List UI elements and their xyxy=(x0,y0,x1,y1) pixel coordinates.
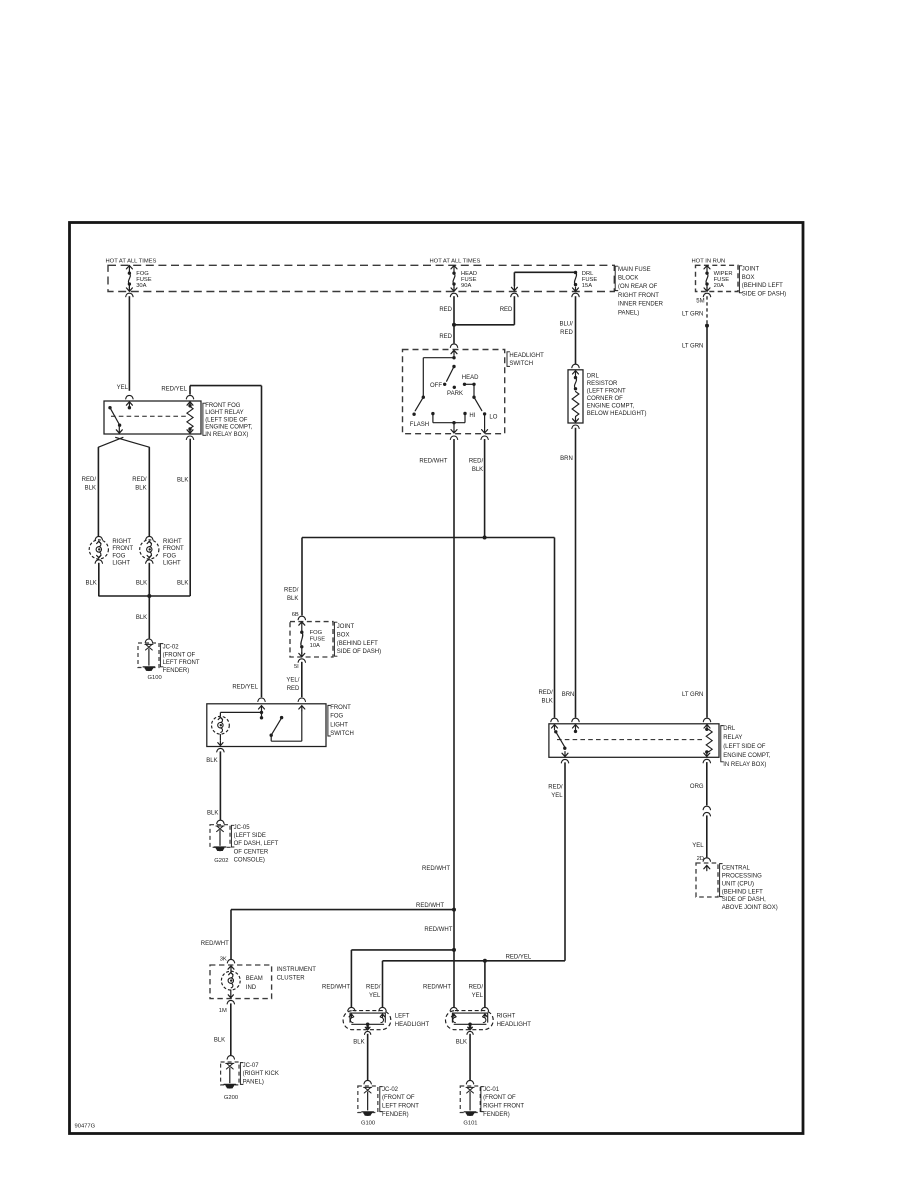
svg-text:RED/WHT: RED/WHT xyxy=(201,941,229,947)
wire RED/YEL relay coil feed xyxy=(161,386,265,711)
wire BLK right headlight ground xyxy=(456,1034,474,1084)
ground bus wire xyxy=(98,594,190,598)
svg-text:BRN: BRN xyxy=(560,456,573,462)
svg-text:(LEFT SIDE: (LEFT SIDE xyxy=(234,833,266,839)
svg-text:LEFT FRONT: LEFT FRONT xyxy=(163,660,200,666)
svg-text:BLK: BLK xyxy=(287,596,298,602)
front fog light switch box xyxy=(207,704,326,747)
svg-text:LIGHT: LIGHT xyxy=(112,561,130,567)
JC-07 splice symbol xyxy=(226,1063,234,1083)
svg-text:ENGINE COMPT,: ENGINE COMPT, xyxy=(587,404,635,410)
svg-text:BRN: BRN xyxy=(562,692,575,698)
svg-text:ORG: ORG xyxy=(690,784,704,790)
svg-text:FRONT FOG: FRONT FOG xyxy=(205,403,241,409)
svg-text:HOT IN RUN: HOT IN RUN xyxy=(692,258,726,264)
svg-text:PARK: PARK xyxy=(447,391,463,397)
svg-text:BLK: BLK xyxy=(206,758,217,764)
svg-text:BLK: BLK xyxy=(136,615,147,621)
connector JC-05 dashed box xyxy=(210,825,230,848)
svg-text:RED/: RED/ xyxy=(132,477,147,483)
svg-text:HOT AT ALL TIMES: HOT AT ALL TIMES xyxy=(106,258,157,264)
JC-05 splice symbol xyxy=(216,826,224,846)
svg-text:G202: G202 xyxy=(214,858,228,864)
right front fog light lamp 2 xyxy=(140,540,159,559)
svg-text:RED/: RED/ xyxy=(548,785,563,791)
svg-text:BLK: BLK xyxy=(472,467,483,473)
svg-text:JC-01: JC-01 xyxy=(483,1087,500,1093)
label LO xyxy=(489,415,497,421)
svg-text:IN RELAY BOX): IN RELAY BOX) xyxy=(723,762,766,768)
svg-text:INNER FENDER: INNER FENDER xyxy=(618,302,664,308)
svg-text:JC-05: JC-05 xyxy=(234,825,251,831)
label RIGHT FRONT FOG LIGHT 2 xyxy=(163,539,184,567)
label JC-05 (LEFT SIDE OF DASH...) xyxy=(231,825,278,864)
switch feed node xyxy=(423,356,455,397)
fog switch L link xyxy=(271,710,302,741)
contact HI xyxy=(463,412,475,419)
svg-text:BLK: BLK xyxy=(177,477,188,483)
label INSTRUMENT CLUSTER xyxy=(277,967,317,982)
svg-text:CLUSTER: CLUSTER xyxy=(277,976,306,982)
fog relay internal switch xyxy=(108,406,131,433)
DRL resistor R1 box xyxy=(568,370,583,423)
fuse HEAD FUSE 90A xyxy=(451,266,477,292)
svg-text:RED: RED xyxy=(439,307,452,313)
DRL relay BRN node xyxy=(574,730,577,733)
svg-text:5M: 5M xyxy=(696,298,704,304)
fog relay coil xyxy=(187,404,193,431)
switch lever LO xyxy=(472,384,486,415)
svg-text:YEL: YEL xyxy=(692,843,704,849)
svg-text:RED/: RED/ xyxy=(366,985,381,991)
label DRL RELAY xyxy=(721,726,771,769)
label DRL RESISTOR xyxy=(587,374,647,418)
svg-text:FOG: FOG xyxy=(330,714,343,720)
wire 5M joint box output xyxy=(696,293,710,304)
svg-text:HEADLIGHT: HEADLIGHT xyxy=(509,353,544,359)
svg-text:CORNER OF: CORNER OF xyxy=(587,396,623,402)
svg-text:SWITCH: SWITCH xyxy=(509,361,533,367)
svg-text:(BEHIND LEFT: (BEHIND LEFT xyxy=(722,889,763,895)
svg-text:LT GRN: LT GRN xyxy=(682,312,703,318)
label JOINT BOX (BEHIND LEFT SIDE OF DASH) fog xyxy=(334,622,381,656)
svg-text:RED/WHT: RED/WHT xyxy=(424,927,452,933)
svg-text:RED/: RED/ xyxy=(469,985,484,991)
svg-text:BLOCK: BLOCK xyxy=(618,276,638,282)
switch LO output xyxy=(482,414,488,433)
svg-text:LO: LO xyxy=(489,415,497,421)
wire RED/YEL to left headlight xyxy=(366,961,386,1011)
switch lever OFF xyxy=(443,365,456,386)
svg-text:SWITCH: SWITCH xyxy=(330,731,354,737)
svg-text:BLU/: BLU/ xyxy=(559,321,573,327)
svg-text:FOG: FOG xyxy=(163,553,176,559)
svg-text:RED/WHT: RED/WHT xyxy=(423,985,451,991)
svg-text:(BEHIND LEFT: (BEHIND LEFT xyxy=(742,283,783,289)
svg-text:5I: 5I xyxy=(294,664,299,670)
svg-text:FUSE: FUSE xyxy=(310,637,326,643)
ground G100 (fog) xyxy=(143,667,162,681)
svg-text:SIDE OF DASH): SIDE OF DASH) xyxy=(742,292,786,298)
svg-text:BLK: BLK xyxy=(207,811,218,817)
wire ORG relay coil to connector xyxy=(690,751,711,805)
right front fog light lamp 1 xyxy=(89,540,108,559)
label FRONT FOG LIGHT RELAY xyxy=(203,403,253,438)
label OFF xyxy=(430,383,442,389)
wire RED/BLK LO branch xyxy=(469,436,488,540)
ground G100 (left headlight) xyxy=(361,1112,375,1127)
svg-text:JC-02: JC-02 xyxy=(163,644,180,650)
svg-text:G100: G100 xyxy=(148,675,162,681)
svg-text:PANEL): PANEL) xyxy=(618,310,639,316)
svg-text:RED: RED xyxy=(500,307,513,313)
front fog light relay U1 box xyxy=(104,401,201,434)
wire YEL/RED joint box to fog switch xyxy=(286,659,305,711)
DRL relay internal switch xyxy=(554,730,568,757)
svg-text:10A: 10A xyxy=(310,643,320,649)
svg-text:RIGHT FRONT: RIGHT FRONT xyxy=(483,1104,524,1110)
contact HEAD xyxy=(462,375,479,386)
fog switch lamp output xyxy=(217,734,224,752)
svg-text:LEFT: LEFT xyxy=(395,1014,410,1020)
wire RED/YEL to right headlight xyxy=(469,961,489,1011)
label HEADLIGHT SWITCH xyxy=(507,352,544,367)
svg-text:ENGINE COMPT,: ENGINE COMPT, xyxy=(723,753,771,759)
svg-text:(FRONT OF: (FRONT OF xyxy=(382,1095,415,1101)
wire RED/YEL horizontal run xyxy=(383,955,566,961)
svg-text:BLK: BLK xyxy=(85,580,96,586)
wire RED/WHT to left headlight xyxy=(322,950,454,1011)
svg-text:15A: 15A xyxy=(582,283,592,289)
svg-text:FOG: FOG xyxy=(310,630,323,636)
figure number 90477G xyxy=(75,1124,96,1130)
connector JC-02 (left headlight) dashed box xyxy=(358,1086,378,1113)
connector JC-02 (fog) dashed box xyxy=(138,643,159,668)
svg-text:BLK: BLK xyxy=(135,486,146,492)
label JC-07 (RIGHT KICK PANEL) xyxy=(240,1063,278,1086)
JC-02 hl splice symbol xyxy=(364,1087,372,1110)
node RED/WHT beam branch xyxy=(452,908,456,912)
svg-text:30A: 30A xyxy=(136,283,146,289)
svg-text:(BEHIND LEFT: (BEHIND LEFT xyxy=(337,641,378,647)
node RED junction xyxy=(452,323,456,327)
svg-text:G200: G200 xyxy=(224,1095,238,1101)
svg-text:RED/WHT: RED/WHT xyxy=(419,458,447,464)
wire RED/YEL DRL relay output xyxy=(548,759,568,960)
svg-text:DRL: DRL xyxy=(587,374,600,380)
svg-text:OF CENTER: OF CENTER xyxy=(234,849,269,855)
wire BLK lamp1 ground drop xyxy=(85,560,102,596)
svg-text:MAIN FUSE: MAIN FUSE xyxy=(618,267,651,273)
svg-text:SIDE OF DASH,: SIDE OF DASH, xyxy=(722,897,766,903)
svg-text:BOX: BOX xyxy=(337,633,350,639)
wire DRL fuse feed (inside fuse block) xyxy=(511,272,575,290)
svg-text:6B: 6B xyxy=(292,612,299,618)
svg-text:IN RELAY BOX): IN RELAY BOX) xyxy=(205,432,248,438)
svg-text:FENDER): FENDER) xyxy=(483,1112,510,1118)
svg-text:RIGHT: RIGHT xyxy=(163,539,182,545)
ground G202 xyxy=(214,847,228,864)
svg-text:JC-07: JC-07 xyxy=(243,1063,260,1069)
svg-text:BLK: BLK xyxy=(456,1040,467,1046)
label FLASH xyxy=(410,422,429,428)
svg-text:RED: RED xyxy=(560,330,573,336)
svg-text:(LEFT SIDE OF: (LEFT SIDE OF xyxy=(205,417,248,423)
inline connector on ORG/YEL wire xyxy=(703,806,710,816)
svg-text:RED/WHT: RED/WHT xyxy=(322,985,350,991)
ground G101 xyxy=(463,1112,477,1127)
label BLK coil wire lower xyxy=(177,580,188,586)
svg-text:HEAD: HEAD xyxy=(462,375,479,381)
svg-text:YEL: YEL xyxy=(369,993,381,999)
wire RED/WHT between branches xyxy=(424,910,454,950)
label CENTRAL PROCESSING UNIT (CPU) xyxy=(720,864,778,912)
svg-text:ENGINE COMPT,: ENGINE COMPT, xyxy=(205,425,253,431)
svg-text:PANEL): PANEL) xyxy=(243,1079,264,1085)
node LT GRN splice xyxy=(705,324,709,328)
wire BLU/RED drl fuse to resistor xyxy=(559,293,579,376)
svg-text:ABOVE JOINT BOX): ABOVE JOINT BOX) xyxy=(722,905,778,911)
svg-text:LIGHT RELAY: LIGHT RELAY xyxy=(205,410,243,416)
svg-text:G101: G101 xyxy=(463,1120,477,1126)
svg-text:YEL: YEL xyxy=(472,993,484,999)
svg-text:BLK: BLK xyxy=(136,580,147,586)
svg-text:RESISTOR: RESISTOR xyxy=(587,381,618,387)
fuse WIPER FUSE 20A xyxy=(704,266,733,292)
main fuse block dashed box xyxy=(108,265,614,291)
svg-text:RIGHT: RIGHT xyxy=(112,539,131,545)
svg-text:DRL: DRL xyxy=(723,726,736,732)
wire LT GRN to DRL relay xyxy=(682,326,711,730)
label JC-01 (FRONT OF RIGHT FRONT FENDER) xyxy=(481,1087,524,1118)
svg-text:JOINT: JOINT xyxy=(742,267,760,273)
connector JC-07 dashed box xyxy=(221,1062,239,1085)
svg-text:YEL/: YEL/ xyxy=(286,677,299,683)
wire YEL fog-fuse to relay xyxy=(117,293,133,407)
svg-text:LEFT FRONT: LEFT FRONT xyxy=(382,1104,419,1110)
svg-text:BLK: BLK xyxy=(353,1040,364,1046)
svg-text:BLK: BLK xyxy=(214,1038,225,1044)
svg-text:YEL: YEL xyxy=(117,385,129,391)
svg-text:RED/: RED/ xyxy=(538,690,553,696)
svg-text:RED: RED xyxy=(287,686,300,692)
svg-text:FENDER): FENDER) xyxy=(163,668,190,674)
svg-text:HEADLIGHT: HEADLIGHT xyxy=(497,1022,532,1028)
svg-text:HOT AT ALL TIMES: HOT AT ALL TIMES xyxy=(430,258,481,264)
svg-text:RED/: RED/ xyxy=(82,477,97,483)
svg-text:FOG: FOG xyxy=(112,553,125,559)
label JOINT BOX (BEHIND LEFT SIDE OF DASH) xyxy=(739,266,786,298)
svg-text:BELOW HEADLIGHT): BELOW HEADLIGHT) xyxy=(587,411,647,417)
wire RED drl-fuse branch xyxy=(454,293,518,325)
svg-text:(LEFT SIDE OF: (LEFT SIDE OF xyxy=(723,744,766,750)
svg-text:90A: 90A xyxy=(461,283,471,289)
JC-02 fog splice symbol xyxy=(145,644,153,665)
svg-text:SIDE OF DASH): SIDE OF DASH) xyxy=(337,649,381,655)
switch output bus xyxy=(431,412,465,433)
svg-text:CONSOLE): CONSOLE) xyxy=(234,858,265,864)
wire RED head fuse to switch xyxy=(439,293,457,325)
svg-text:OF DASH, LEFT: OF DASH, LEFT xyxy=(234,841,279,847)
wire LT GRN dashed segment xyxy=(682,296,707,324)
fog switch feed node xyxy=(220,711,263,720)
beam lamp output xyxy=(227,990,234,1004)
svg-text:RED/YEL: RED/YEL xyxy=(232,685,258,691)
fog switch indicator lamp xyxy=(212,712,230,734)
label HOT AT ALL TIMES (center) xyxy=(430,258,481,264)
svg-text:FRONT: FRONT xyxy=(163,546,184,552)
svg-text:CENTRAL: CENTRAL xyxy=(722,866,751,872)
svg-text:20A: 20A xyxy=(714,283,724,289)
label JC-02 (FRONT OF LEFT FRONT FENDER) hl xyxy=(380,1087,419,1118)
wire BLK cluster to JC-07 xyxy=(214,1003,235,1059)
left headlight lamp xyxy=(343,1011,429,1035)
splice under fog relay xyxy=(98,437,149,447)
ground G200 xyxy=(224,1084,238,1100)
label MAIN FUSE BLOCK xyxy=(615,266,663,316)
wire RED/BLK horizontal bus xyxy=(302,537,555,539)
svg-text:RED: RED xyxy=(439,334,452,340)
wire RED/BLK to right front fog light xyxy=(82,447,103,540)
joint box (fog fuse) dashed box xyxy=(290,622,333,657)
instrument cluster dashed box xyxy=(210,965,272,999)
svg-text:BLK: BLK xyxy=(177,580,188,586)
svg-text:RIGHT FRONT: RIGHT FRONT xyxy=(618,293,659,299)
DRL resistor internals xyxy=(572,376,579,417)
label JC-02 (FRONT OF LEFT FRONT FENDER) xyxy=(160,644,199,675)
JC-01 splice symbol xyxy=(466,1087,474,1110)
svg-text:LT GRN: LT GRN xyxy=(682,344,703,350)
svg-text:RED/WHT: RED/WHT xyxy=(422,866,450,872)
svg-text:G100: G100 xyxy=(361,1120,375,1126)
svg-text:IND: IND xyxy=(246,985,257,991)
wire BLK fog switch to JC-05 xyxy=(206,751,224,823)
svg-text:YEL: YEL xyxy=(551,793,563,799)
contact PARK xyxy=(447,386,463,397)
svg-text:BOX: BOX xyxy=(742,275,755,281)
svg-text:FRONT: FRONT xyxy=(330,705,351,711)
svg-text:LT GRN: LT GRN xyxy=(682,692,703,698)
headlight switch S1 dashed box xyxy=(403,350,505,434)
wire RED/WHT to right headlight xyxy=(423,950,458,1011)
svg-text:RED/YEL: RED/YEL xyxy=(506,955,532,961)
wire BRN resistor to DRL relay xyxy=(560,417,579,730)
node RED/YEL right headlight branch xyxy=(483,959,487,963)
diagram border frame xyxy=(70,223,804,1134)
DRL relay coil xyxy=(705,728,712,754)
svg-text:RED/: RED/ xyxy=(284,587,299,593)
fuse FOG FUSE 30A xyxy=(126,266,151,292)
svg-text:RED/WHT: RED/WHT xyxy=(416,903,444,909)
label HOT IN RUN xyxy=(692,258,726,264)
svg-text:JOINT: JOINT xyxy=(337,624,355,630)
wire BLK to JC-02 xyxy=(136,596,153,643)
svg-text:RED/YEL: RED/YEL xyxy=(161,387,187,393)
svg-text:HI: HI xyxy=(469,413,475,419)
svg-text:HEADLIGHT: HEADLIGHT xyxy=(395,1022,430,1028)
svg-text:RIGHT: RIGHT xyxy=(497,1014,516,1020)
svg-text:UNIT (CPU): UNIT (CPU) xyxy=(722,881,754,887)
svg-text:OFF: OFF xyxy=(430,383,442,389)
wire RED/WHT headlight switch output xyxy=(416,436,458,910)
svg-text:(LEFT FRONT: (LEFT FRONT xyxy=(587,389,626,395)
wire RED/BLK to second fog light xyxy=(132,447,153,540)
joint box (wiper fuse) dashed box xyxy=(696,265,739,291)
wire YEL to CPU xyxy=(692,815,710,870)
svg-text:(FRONT OF: (FRONT OF xyxy=(163,652,196,658)
fog switch lever xyxy=(270,716,284,737)
svg-text:1M: 1M xyxy=(219,1008,227,1014)
svg-text:BLK: BLK xyxy=(541,698,552,704)
wire RED/BLK to DRL relay xyxy=(538,538,558,730)
svg-text:(RIGHT KICK: (RIGHT KICK xyxy=(243,1071,279,1077)
wire RED junction to switch xyxy=(439,325,457,356)
svg-text:RELAY: RELAY xyxy=(723,735,742,741)
node RED/WHT left headlight branch xyxy=(452,948,456,952)
wire BLK lamp2 ground drop xyxy=(136,560,153,596)
svg-text:(FRONT OF: (FRONT OF xyxy=(483,1095,516,1101)
fog relay internal dashed link xyxy=(111,415,188,417)
label FRONT FOG LIGHT SWITCH xyxy=(328,705,354,737)
svg-text:PROCESSING: PROCESSING xyxy=(722,874,762,880)
fuse FOG FUSE 10A xyxy=(299,622,325,657)
label BEAM IND xyxy=(246,976,263,991)
label RIGHT FRONT FOG LIGHT 1 xyxy=(112,539,133,567)
wire RED/WHT to instrument cluster xyxy=(201,910,454,971)
svg-text:FRONT: FRONT xyxy=(112,546,133,552)
CPU dashed box xyxy=(696,863,718,897)
svg-text:INSTRUMENT: INSTRUMENT xyxy=(277,967,317,973)
wire BLK fog relay coil ground xyxy=(177,428,194,596)
svg-text:FLASH: FLASH xyxy=(410,422,429,428)
label HOT AT ALL TIMES (left) xyxy=(106,258,157,264)
svg-text:3K: 3K xyxy=(220,956,227,962)
DRL relay internal dashed link xyxy=(557,739,704,741)
wire BLK left headlight ground xyxy=(353,1034,371,1084)
svg-text:JC-02: JC-02 xyxy=(382,1087,399,1093)
svg-text:(ON REAR OF: (ON REAR OF xyxy=(618,284,658,290)
right headlight lamp xyxy=(446,1011,532,1035)
svg-text:90477G: 90477G xyxy=(75,1124,96,1130)
wire RED/BLK to fog joint box xyxy=(284,538,305,620)
switch lever FLASH xyxy=(412,396,425,416)
svg-text:LIGHT: LIGHT xyxy=(330,722,348,728)
DRL relay U2 box xyxy=(549,724,719,758)
svg-text:FENDER): FENDER) xyxy=(382,1112,409,1118)
svg-text:RED/: RED/ xyxy=(469,458,484,464)
svg-text:BLK: BLK xyxy=(85,486,96,492)
beam indicator lamp xyxy=(221,970,240,990)
connector JC-01 dashed box xyxy=(460,1086,480,1113)
fuse DRL FUSE 15A xyxy=(573,271,598,292)
svg-text:BEAM: BEAM xyxy=(246,976,263,982)
svg-text:LIGHT: LIGHT xyxy=(163,561,181,567)
